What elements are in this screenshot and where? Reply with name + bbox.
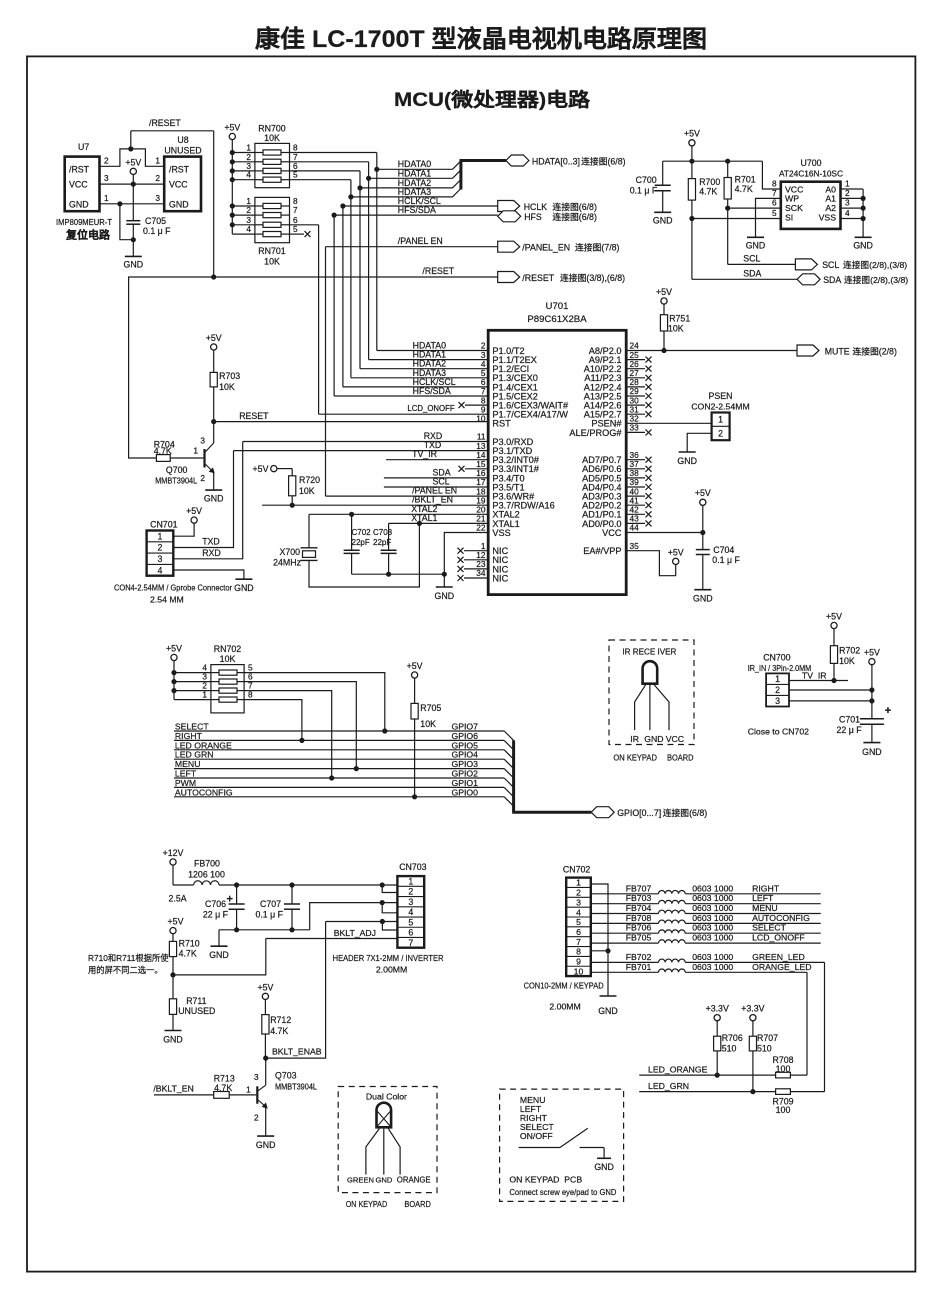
svg-text:GPIO0: GPIO0 bbox=[451, 787, 478, 797]
svg-text:1: 1 bbox=[775, 674, 780, 684]
svg-text:Q703: Q703 bbox=[275, 1071, 297, 1081]
svg-text:2.5A: 2.5A bbox=[169, 894, 187, 904]
svg-text:+12V: +12V bbox=[163, 848, 184, 858]
power +5V CN700 bbox=[869, 659, 875, 665]
svg-text:1: 1 bbox=[845, 179, 850, 189]
net /BKLT_EN wire bbox=[154, 1094, 214, 1096]
net LED GRN / GPIO4 line bbox=[174, 758, 504, 760]
wire CN703 pin2 branch bbox=[382, 885, 397, 893]
svg-text:MMBT3904L: MMBT3904L bbox=[155, 477, 197, 486]
ground below C701 bbox=[863, 742, 880, 744]
svg-text:VCC: VCC bbox=[666, 734, 684, 744]
svg-text:VCC: VCC bbox=[169, 180, 188, 190]
svg-text:+5V: +5V bbox=[166, 643, 182, 653]
U701 pin9 LCD_ONOFF wire bbox=[319, 413, 489, 415]
wire CN700 pin3 to +5V rail bbox=[789, 700, 872, 702]
svg-text:用的屏不同二选一。: 用的屏不同二选一。 bbox=[88, 965, 163, 975]
svg-text:0603 1000: 0603 1000 bbox=[692, 883, 733, 893]
svg-text:10K: 10K bbox=[219, 382, 235, 392]
wire crystal bottom to XTAL1 bbox=[309, 523, 419, 587]
ferrite bead FB704 0603 1000 net MENU bbox=[591, 913, 659, 915]
svg-text:22pF: 22pF bbox=[373, 538, 391, 547]
crystal X700 24MHz bbox=[308, 514, 310, 548]
svg-text:ON KEYPAD PCB: ON KEYPAD PCB bbox=[509, 1175, 582, 1185]
svg-text:+3.3V: +3.3V bbox=[706, 1004, 729, 1014]
svg-text:U8: U8 bbox=[177, 135, 188, 145]
wire CN702 pin8 to ground rail bbox=[591, 950, 608, 952]
svg-text:连接图(6/8): 连接图(6/8) bbox=[552, 201, 597, 212]
power +5V R712 bbox=[262, 993, 268, 999]
U701 pin15 no-connect bbox=[465, 468, 488, 470]
RN701 element pin1-pin8 bbox=[232, 205, 255, 207]
U701 pin35 EA#/VPP wire to +5V bbox=[626, 551, 676, 576]
capacitor C705 0.1uF bbox=[126, 220, 140, 222]
net PWM / GPIO1 line bbox=[174, 786, 504, 788]
svg-text:GND: GND bbox=[69, 200, 89, 210]
flag HFS 连接图(6/8) bbox=[498, 211, 521, 222]
flag /PANEL_EN 连接图(7/8) bbox=[498, 241, 520, 252]
svg-text:VCC: VCC bbox=[69, 180, 88, 190]
net LEFT / GPIO2 line bbox=[174, 777, 504, 779]
svg-text:R702: R702 bbox=[839, 646, 860, 656]
wire CN701 pin4 to ground bbox=[173, 570, 244, 579]
wire BKLT_ENAB vertical bbox=[266, 922, 326, 1059]
svg-text:RN700: RN700 bbox=[258, 124, 285, 134]
U701 pin5 HDATA3 wire bbox=[351, 377, 488, 379]
svg-text:1: 1 bbox=[155, 156, 160, 166]
svg-text:+5V: +5V bbox=[656, 287, 672, 297]
svg-text:+: + bbox=[227, 894, 233, 906]
svg-text:0603 1000: 0603 1000 bbox=[692, 903, 733, 913]
svg-text:/RST: /RST bbox=[69, 165, 90, 175]
transistor Q700 MMBT3904L bbox=[203, 449, 205, 468]
svg-text:ALE/PROG#: ALE/PROG# bbox=[569, 428, 622, 438]
svg-text:10K: 10K bbox=[839, 656, 855, 666]
net MENU / GPIO3 line bbox=[174, 768, 504, 770]
svg-text:GND: GND bbox=[853, 240, 873, 250]
svg-text:UNUSED: UNUSED bbox=[178, 1006, 215, 1016]
svg-text:5: 5 bbox=[576, 917, 581, 927]
svg-text:2: 2 bbox=[576, 888, 581, 898]
svg-text:C700: C700 bbox=[636, 175, 657, 185]
resistor R710 4.7K bbox=[169, 941, 176, 956]
svg-text:+: + bbox=[885, 705, 891, 717]
capacitor C702 22pF bbox=[351, 514, 353, 550]
dual LED legs bbox=[366, 1129, 379, 1175]
svg-text:R710和R711根据所使: R710和R711根据所使 bbox=[88, 953, 169, 963]
IR LED dome bbox=[643, 661, 658, 683]
power +5V U700 bbox=[689, 140, 695, 146]
wire CN703 pin3 GND net bbox=[310, 903, 398, 930]
U701 pin14 TV_IR wire bbox=[386, 459, 488, 461]
ground below WP bbox=[747, 236, 764, 238]
wire ORANGE_LED vertical bbox=[806, 972, 808, 1075]
svg-text:LEFT: LEFT bbox=[752, 893, 774, 903]
svg-text:1: 1 bbox=[576, 878, 581, 888]
net LED_ORANGE line bbox=[639, 1074, 775, 1076]
net HDATA0 line bbox=[377, 168, 453, 170]
svg-text:GND: GND bbox=[204, 494, 224, 504]
svg-text:+5V: +5V bbox=[125, 157, 141, 167]
bus HDATA merge diagonals bbox=[453, 161, 461, 169]
svg-text:2: 2 bbox=[408, 887, 413, 897]
transistor Q703 MMBT3904L bbox=[256, 1086, 258, 1103]
svg-text:R713: R713 bbox=[214, 1074, 235, 1084]
RN700 pin5 wire to HDATA3 vertical bbox=[290, 179, 351, 181]
wire WP pin7 to ground bbox=[756, 198, 781, 237]
wire CN700 pin2 to +5V rail bbox=[789, 689, 872, 691]
svg-text:GND: GND bbox=[644, 734, 663, 744]
net HCLK/SCL line bbox=[343, 205, 498, 207]
svg-text:+5V: +5V bbox=[695, 488, 711, 498]
svg-text:33: 33 bbox=[630, 423, 640, 433]
RN702 pin6 wire to MENU bbox=[244, 682, 356, 769]
power +5V EA pin bbox=[673, 558, 679, 564]
svg-text:22 μ F: 22 μ F bbox=[203, 910, 229, 920]
svg-text:22: 22 bbox=[476, 523, 486, 533]
wire CN702 pin1 to ground rail bbox=[591, 884, 608, 996]
resistor R704 4.7K bbox=[156, 455, 170, 462]
net SCL drop to flag bbox=[727, 208, 729, 264]
svg-text:R707: R707 bbox=[757, 1033, 778, 1043]
bus GPIO vertical bbox=[512, 740, 515, 812]
svg-text:ORANGE_LED: ORANGE_LED bbox=[752, 962, 811, 972]
resistor network RN702 10K bbox=[211, 665, 244, 713]
wire Q703 collector bbox=[265, 1058, 267, 1085]
svg-text:SI: SI bbox=[785, 213, 793, 223]
svg-text:6: 6 bbox=[576, 927, 581, 937]
svg-text:+5V: +5V bbox=[826, 611, 842, 621]
power +5V CN701 bbox=[191, 517, 197, 523]
RN701 pin6 wire to LCD_ONOFF vertical bbox=[290, 224, 319, 226]
svg-text:0603 1000: 0603 1000 bbox=[692, 923, 733, 933]
svg-text:连接图(7/8): 连接图(7/8) bbox=[575, 242, 620, 253]
svg-text:EA#/VPP: EA#/VPP bbox=[583, 546, 621, 556]
wire /RESET stem bbox=[130, 131, 132, 149]
wire /PANEL_EN vertical to pin18 bbox=[325, 247, 327, 496]
svg-text:0603 1000: 0603 1000 bbox=[692, 913, 733, 923]
svg-text:HEADER 7X1-2MM / INVERTER: HEADER 7X1-2MM / INVERTER bbox=[333, 953, 444, 963]
svg-text:3: 3 bbox=[845, 198, 850, 208]
svg-text:连接图(2/8),(3/8): 连接图(2/8),(3/8) bbox=[843, 259, 907, 270]
net BKLT_ENAB wire CN703 pin5 bbox=[326, 921, 398, 923]
svg-text:HCLK: HCLK bbox=[524, 202, 548, 212]
svg-text:/RESET: /RESET bbox=[522, 273, 554, 283]
svg-text:GND: GND bbox=[693, 594, 713, 604]
RN700 element pin3-pin6 bbox=[232, 170, 255, 172]
svg-text:BOARD: BOARD bbox=[404, 1199, 431, 1209]
ground below PSEN bbox=[679, 451, 696, 453]
ferrite bead FB708 0603 1000 net AUTOCONFIG bbox=[591, 922, 659, 924]
svg-text:100: 100 bbox=[776, 1064, 791, 1074]
svg-text:8: 8 bbox=[576, 947, 581, 957]
U701 pin19 /BKLT_EN wire bbox=[262, 504, 488, 506]
svg-text:22 μ F: 22 μ F bbox=[836, 725, 862, 735]
svg-text:1: 1 bbox=[157, 531, 162, 541]
RN700 pin6 wire to HDATA2 vertical bbox=[290, 170, 361, 172]
svg-text:24MHz: 24MHz bbox=[273, 558, 301, 568]
svg-text:RN701: RN701 bbox=[258, 246, 285, 256]
svg-text:2: 2 bbox=[254, 1113, 259, 1123]
svg-text:1: 1 bbox=[193, 446, 198, 456]
svg-text:RESET: RESET bbox=[239, 411, 269, 421]
svg-text:4.7K: 4.7K bbox=[699, 187, 717, 197]
net HFS/SDA line bbox=[334, 214, 498, 216]
svg-text:/RESET: /RESET bbox=[422, 266, 454, 276]
wire U700 right pins to ground rail bbox=[841, 188, 864, 190]
svg-text:34: 34 bbox=[476, 568, 486, 578]
svg-text:1: 1 bbox=[202, 690, 207, 700]
flag HDATA[0..3] 连接图(6/8) bbox=[506, 155, 529, 166]
power +3.3V R707 bbox=[750, 1015, 756, 1021]
svg-text:1206 100: 1206 100 bbox=[188, 870, 225, 880]
wire PSEN pin2 to ground bbox=[687, 433, 711, 452]
wire C705 bottom to ground bbox=[132, 224, 134, 256]
RN701 pin8 HCLK/SCL junction vertical bbox=[342, 206, 344, 387]
svg-text:IR RECE IVER: IR RECE IVER bbox=[622, 647, 676, 657]
svg-text:2: 2 bbox=[157, 543, 162, 553]
wire SCK pin6 to R701 bbox=[728, 207, 781, 209]
svg-text:3: 3 bbox=[200, 436, 205, 446]
svg-text:FB705: FB705 bbox=[626, 933, 652, 943]
svg-text:GND: GND bbox=[598, 1006, 618, 1016]
RN700 pin8 wire to HDATA0 vertical bbox=[290, 152, 377, 154]
ferrite bead FB706 0603 1000 net SELECT bbox=[591, 932, 659, 934]
svg-text:Connect screw eye/pad to GND: Connect screw eye/pad to GND bbox=[509, 1187, 616, 1197]
resistor R708 100 bbox=[776, 1072, 791, 1078]
U701 pin2 HDATA0 wire bbox=[377, 350, 488, 352]
resistor R703 10K bbox=[210, 372, 217, 387]
wire RESET to Q700 collector bbox=[213, 422, 215, 443]
IC U701 P89C61X2BA bbox=[488, 330, 626, 594]
svg-text:4: 4 bbox=[246, 224, 251, 234]
U701 pin3 HDATA1 wire bbox=[369, 359, 489, 361]
RN700 element pin2-pin7 bbox=[232, 161, 255, 163]
svg-text:CN703: CN703 bbox=[399, 862, 426, 872]
wire CN703 pin4 branch bbox=[382, 903, 397, 913]
svg-text:SCL: SCL bbox=[822, 260, 839, 270]
resistor R701 4.7K bbox=[727, 161, 729, 177]
svg-text:2.54 MM: 2.54 MM bbox=[150, 595, 184, 605]
assembly IR RECEIVER dashed box bbox=[609, 640, 694, 745]
ground CN701 pin4 bbox=[235, 578, 252, 580]
svg-text:RXD: RXD bbox=[202, 548, 221, 558]
svg-text:3: 3 bbox=[104, 173, 109, 183]
wire BKLT_ADJ vertical to R710/R711 bbox=[173, 939, 266, 975]
svg-text:CON2-2.54MM: CON2-2.54MM bbox=[691, 402, 749, 412]
power +12V bbox=[170, 859, 176, 865]
assembly keypad switch dashed box bbox=[500, 1089, 624, 1201]
ferrite bead FB703 0603 1000 net LEFT bbox=[591, 903, 659, 905]
svg-text:22pF: 22pF bbox=[352, 538, 370, 547]
RN700 element pin4-pin5 bbox=[232, 179, 255, 181]
U701 pin11 RXD wire bbox=[243, 441, 489, 443]
svg-text:0.1 μ F: 0.1 μ F bbox=[630, 186, 658, 196]
capacitor C706 22uF electrolytic bbox=[236, 885, 238, 904]
power +5V VCC pin44 bbox=[700, 499, 706, 505]
svg-text:510: 510 bbox=[757, 1044, 772, 1054]
svg-text:SDA: SDA bbox=[823, 275, 841, 285]
svg-text:C702: C702 bbox=[352, 528, 372, 537]
svg-text:GND: GND bbox=[376, 1176, 393, 1185]
svg-text:TV_IR: TV_IR bbox=[412, 449, 437, 459]
U701 pin4 HDATA2 wire bbox=[360, 368, 488, 370]
flag MUTE 连接图(2/8) bbox=[797, 345, 819, 356]
svg-text:0603 1000: 0603 1000 bbox=[692, 893, 733, 903]
resistor network RN700 10K bbox=[255, 143, 290, 187]
ground in switch box bbox=[597, 1157, 611, 1159]
svg-text:10K: 10K bbox=[220, 654, 236, 664]
flag SCL 连接图(2/8),(3/8) bbox=[795, 259, 817, 270]
svg-text:GND: GND bbox=[124, 259, 144, 269]
U701 right no-connect pins bbox=[626, 359, 645, 361]
svg-text:BKLT_ADJ: BKLT_ADJ bbox=[334, 928, 376, 938]
svg-text:3: 3 bbox=[155, 193, 160, 203]
svg-text:+5V: +5V bbox=[224, 122, 240, 132]
net HDATA2 line bbox=[360, 187, 453, 189]
svg-text:ON KEYPAD: ON KEYPAD bbox=[346, 1199, 388, 1209]
svg-text:4: 4 bbox=[408, 907, 413, 917]
svg-text:LCD_ONOFF: LCD_ONOFF bbox=[407, 404, 454, 413]
svg-text:AT24C16N-10SC: AT24C16N-10SC bbox=[779, 169, 843, 179]
svg-text:U700: U700 bbox=[800, 158, 821, 168]
net SDA drop to flag bbox=[691, 219, 693, 280]
svg-text:UNUSED: UNUSED bbox=[164, 146, 201, 156]
svg-text:C707: C707 bbox=[260, 899, 281, 909]
flag /RESET 连接图(3/8),(6/8) bbox=[498, 272, 520, 283]
ground below C704 bbox=[694, 589, 711, 591]
net MUTE wire pin24 bbox=[626, 350, 797, 352]
svg-text:2: 2 bbox=[718, 428, 723, 438]
wire VCC row U7-U8 bbox=[100, 183, 165, 185]
resistor R706 510 bbox=[714, 1036, 721, 1051]
svg-text:HFS/SDA: HFS/SDA bbox=[398, 205, 436, 215]
wire caps to ground and CN703 pin3 bbox=[219, 929, 310, 931]
svg-text:2: 2 bbox=[775, 685, 780, 695]
svg-text:TXD: TXD bbox=[202, 537, 220, 547]
wire SI pin5 to R700 bbox=[692, 218, 781, 220]
svg-text:HFS: HFS bbox=[524, 212, 542, 222]
svg-text:35: 35 bbox=[630, 541, 640, 551]
ferrite bead FB700 1206 100 bbox=[173, 884, 194, 886]
net TXD wire CN701 pin2 bbox=[173, 451, 233, 548]
svg-text:MENU: MENU bbox=[752, 903, 778, 913]
svg-text:4.7K: 4.7K bbox=[735, 184, 753, 194]
wire /RESET left branch to R704 bbox=[129, 277, 214, 458]
svg-text:FB703: FB703 bbox=[626, 893, 652, 903]
IC U7 IMP809MEUR-T bbox=[65, 157, 100, 212]
svg-text:CON10-2MM / KEYPAD: CON10-2MM / KEYPAD bbox=[524, 981, 604, 991]
svg-text:CN701: CN701 bbox=[150, 520, 177, 530]
net RXD wire CN701 pin3 bbox=[173, 442, 242, 559]
capacitor C704 0.1uF bbox=[696, 549, 710, 551]
wire +5V to C705 bbox=[132, 184, 134, 221]
svg-text:+5V: +5V bbox=[186, 506, 202, 516]
svg-text:10K: 10K bbox=[420, 719, 436, 729]
svg-text:GND: GND bbox=[653, 215, 673, 225]
svg-text:10K: 10K bbox=[299, 486, 315, 496]
svg-text:R712: R712 bbox=[270, 1015, 291, 1025]
RN701 element pin3-pin6 bbox=[232, 224, 255, 226]
U701 pin6 HCLK/SCL wire bbox=[343, 386, 488, 388]
RN700 pin7 wire to HDATA1 vertical bbox=[290, 161, 369, 163]
svg-text:R703: R703 bbox=[219, 371, 240, 381]
svg-text:SCL: SCL bbox=[743, 254, 760, 264]
svg-text:IR: IR bbox=[630, 734, 639, 744]
svg-text:连接图(6/8): 连接图(6/8) bbox=[663, 807, 708, 818]
svg-text:1: 1 bbox=[246, 1085, 251, 1095]
svg-text:R720: R720 bbox=[299, 475, 320, 485]
svg-text:4: 4 bbox=[576, 907, 581, 917]
RN701 pin5 no-connect bbox=[290, 233, 305, 235]
svg-text:连接图(6/8): 连接图(6/8) bbox=[552, 211, 597, 222]
svg-text:2: 2 bbox=[246, 205, 251, 215]
svg-text:IMP809MEUR-T: IMP809MEUR-T bbox=[56, 217, 112, 227]
RN700 element pin1-pin8 bbox=[232, 152, 255, 154]
svg-text:/RST: /RST bbox=[169, 165, 190, 175]
svg-text:2: 2 bbox=[155, 173, 160, 183]
svg-text:NIC: NIC bbox=[492, 573, 508, 583]
wire caps ground rail bbox=[352, 573, 445, 575]
IR LED legs bbox=[635, 685, 646, 730]
svg-text:FB700: FB700 bbox=[194, 859, 220, 869]
svg-text:FB702: FB702 bbox=[626, 952, 652, 962]
svg-text:2.00MM: 2.00MM bbox=[549, 1002, 580, 1012]
svg-text:4.7K: 4.7K bbox=[270, 1026, 288, 1036]
power +5V U7/U8 bbox=[130, 168, 136, 174]
svg-text:10K: 10K bbox=[668, 324, 684, 334]
svg-text:7: 7 bbox=[408, 938, 413, 948]
svg-text:FB701: FB701 bbox=[626, 962, 652, 972]
svg-text:VSS: VSS bbox=[492, 528, 510, 538]
svg-text:CN700: CN700 bbox=[763, 653, 790, 663]
power +5V R751 bbox=[661, 298, 667, 304]
svg-text:GND: GND bbox=[209, 950, 229, 960]
svg-text:1: 1 bbox=[718, 415, 723, 425]
flag HCLK 连接图(6/8) bbox=[498, 201, 520, 212]
svg-text:X700: X700 bbox=[279, 547, 300, 557]
svg-text:+5V: +5V bbox=[668, 547, 684, 557]
svg-text:4: 4 bbox=[157, 565, 162, 575]
svg-text:MMBT3904L: MMBT3904L bbox=[275, 1083, 317, 1092]
RN702 element pin1-pin8 bbox=[174, 699, 211, 701]
svg-text:GND: GND bbox=[234, 583, 254, 593]
net /RESET line to flag bbox=[214, 276, 498, 278]
bus HDATA vertical bbox=[459, 161, 462, 190]
svg-text:Close to CN702: Close to CN702 bbox=[748, 727, 809, 737]
U701 pin16 SDA wire bbox=[384, 477, 488, 479]
svg-text:100: 100 bbox=[776, 1105, 791, 1115]
svg-text:C703: C703 bbox=[373, 528, 393, 537]
capacitor C701 22uF electrolytic bbox=[860, 718, 884, 720]
assembly Dual Color LED dashed box bbox=[338, 1087, 437, 1193]
svg-text:0.1 μ F: 0.1 μ F bbox=[143, 226, 171, 236]
ferrite bead FB701 0603 1000 net ORANGE_LED bbox=[591, 971, 659, 973]
svg-text:连接图(6/8): 连接图(6/8) bbox=[581, 156, 626, 167]
svg-text:MCU(微处理器)电路: MCU(微处理器)电路 bbox=[394, 88, 591, 111]
svg-text:连接图(2/8),(3/8): 连接图(2/8),(3/8) bbox=[844, 274, 908, 285]
svg-text:FB707: FB707 bbox=[626, 883, 652, 893]
svg-text:U701: U701 bbox=[546, 301, 569, 312]
svg-text:4: 4 bbox=[845, 208, 850, 218]
capacitor C700 0.1uF bbox=[662, 161, 664, 185]
svg-text:3: 3 bbox=[408, 897, 413, 907]
svg-text:GND: GND bbox=[677, 456, 697, 466]
svg-text:C706: C706 bbox=[205, 899, 226, 909]
svg-text:ON KEYPAD: ON KEYPAD bbox=[613, 752, 657, 762]
svg-text:7: 7 bbox=[576, 937, 581, 947]
svg-text:5: 5 bbox=[293, 224, 298, 234]
